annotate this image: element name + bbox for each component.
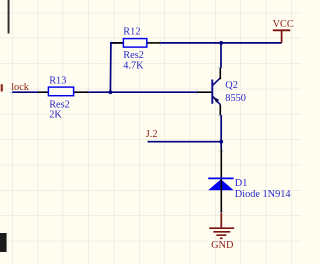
junction node emitter/diode — [219, 140, 223, 144]
wire emitter vertical to J2 junction — [220, 115, 222, 148]
power port GND stem — [220, 212, 222, 227]
power port GND bar 1 — [209, 227, 234, 229]
diode D1 bottom pin — [220, 179, 222, 212]
power port VCC bar — [273, 29, 291, 31]
svg-text:J.2: J.2 — [146, 129, 158, 140]
svg-text:Diode 1N914: Diode 1N914 — [235, 189, 291, 200]
wire R12 right to VCC — [160, 42, 281, 44]
transistor Q2 emitter arrow — [214, 97, 219, 102]
power port VCC stem — [281, 30, 283, 43]
wire main horizontal net lock — [12, 91, 38, 93]
wire collector vertical — [220, 43, 222, 68]
power port GND bar 3 — [216, 234, 226, 236]
transistor Q2 collector pin — [219, 68, 221, 80]
wire R13 right to Q2 base — [88, 91, 197, 93]
power port GND bar 4 — [220, 237, 223, 239]
diode D1 top pin — [220, 148, 222, 178]
transistor Q2 emitter pin — [219, 105, 221, 115]
svg-text:8550: 8550 — [225, 93, 246, 104]
resistor R12 body — [123, 39, 146, 48]
diode D1 cathode bar — [208, 177, 233, 179]
resistor R12 right pin — [147, 42, 161, 44]
transistor Q2 base bar — [211, 80, 213, 104]
svg-text:R13: R13 — [49, 75, 66, 86]
svg-text:4.7K: 4.7K — [123, 60, 144, 71]
resistor R13 body — [48, 87, 73, 96]
transistor Q2 base pin — [197, 91, 213, 93]
svg-text:2K: 2K — [49, 109, 62, 120]
svg-text:VCC: VCC — [273, 19, 294, 30]
artifact blob bottom left — [0, 233, 7, 252]
svg-text:D1: D1 — [235, 178, 248, 189]
wire net J.2 horizontal — [148, 141, 222, 143]
transistor Q2 emitter diagonal — [213, 97, 221, 105]
pin hotspot markers (faint crosses) — [9, 40, 224, 215]
svg-text:Q2: Q2 — [225, 80, 238, 91]
transistor Q2 collector diagonal — [213, 78, 221, 86]
svg-text:GND: GND — [211, 240, 234, 251]
net label clipped character at left edge — [1, 84, 3, 91]
resistor R13 right pin — [74, 91, 89, 93]
junction node R13/R12 — [109, 90, 113, 94]
junction node collector/VCC — [219, 41, 223, 45]
resistor R13 left pin — [38, 91, 49, 93]
diode D1 anode triangle — [208, 179, 233, 190]
resistor R12 left pin — [112, 42, 123, 44]
power port GND bar 2 — [213, 231, 230, 233]
artifact vertical line top left — [8, 0, 10, 34]
svg-text:R12: R12 — [123, 27, 140, 38]
svg-text:lock: lock — [11, 82, 30, 93]
wire vertical R12 left leg — [110, 43, 123, 92]
